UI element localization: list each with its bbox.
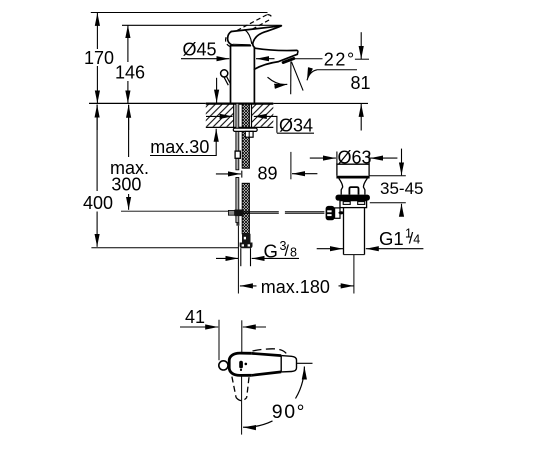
svg-text:Ø45: Ø45 [183, 40, 217, 60]
svg-text:max.180: max.180 [261, 277, 330, 297]
svg-text:22°: 22° [324, 49, 356, 69]
svg-text:G1: G1 [379, 228, 404, 249]
svg-text:Ø63: Ø63 [338, 147, 372, 167]
svg-text:89: 89 [258, 164, 278, 184]
svg-text:41: 41 [185, 307, 205, 327]
svg-text:max.30: max.30 [150, 137, 209, 157]
svg-text:81: 81 [351, 73, 371, 93]
svg-text:400: 400 [83, 193, 113, 213]
svg-text:170: 170 [84, 48, 114, 68]
svg-text:G: G [264, 241, 278, 262]
svg-text:90°: 90° [272, 401, 306, 423]
svg-text:35-45: 35-45 [380, 179, 423, 198]
svg-text:Ø34: Ø34 [279, 115, 313, 135]
svg-text:4: 4 [413, 233, 420, 247]
svg-text:8: 8 [290, 246, 297, 260]
svg-text:300: 300 [111, 175, 141, 195]
svg-text:146: 146 [115, 63, 145, 83]
svg-text:/: / [285, 243, 290, 260]
